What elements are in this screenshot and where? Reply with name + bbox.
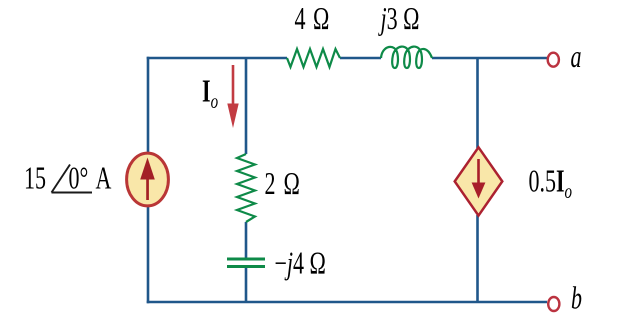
svg-text:Io: Io [202, 74, 218, 113]
wire middle branch lower [245, 267, 248, 302]
wire right branch upper [476, 58, 479, 148]
svg-text:2 Ω: 2 Ω [265, 166, 300, 201]
svg-text:0°: 0° [69, 161, 89, 196]
label a [571, 39, 582, 74]
label b [571, 281, 582, 316]
terminal a [548, 53, 559, 67]
label 0.5Io [529, 164, 573, 203]
svg-text:4 Ω: 4 Ω [295, 1, 330, 36]
capacitor -j4ohm [227, 259, 265, 267]
label 2 ohm [265, 166, 300, 201]
label -j4 ohm [275, 246, 326, 281]
wire inductor-to-terminal-a [432, 57, 547, 60]
current source arrow up [140, 158, 155, 201]
inductor j3ohm [381, 47, 432, 68]
dependent source diamond 0.5Io [455, 147, 503, 215]
svg-text:b: b [571, 281, 582, 316]
wire middle branch upper [245, 58, 248, 154]
Io arrow down [227, 65, 238, 128]
current source 15A circle [127, 153, 169, 206]
svg-text:j3 Ω: j3 Ω [378, 1, 419, 36]
label 15 angle 0 A [24, 161, 112, 196]
resistor 4ohm [287, 49, 340, 67]
svg-text:−j4 Ω: −j4 Ω [275, 246, 326, 281]
wire resistor-to-inductor [340, 57, 381, 60]
svg-text:a: a [571, 39, 582, 74]
wire top-left segment [147, 57, 287, 60]
svg-text:15: 15 [24, 161, 46, 196]
svg-text:A: A [96, 161, 112, 196]
terminal b [548, 297, 559, 311]
svg-text:0.5Io: 0.5Io [529, 164, 573, 203]
wire left vertical [147, 57, 150, 304]
label 4 ohm [295, 1, 330, 36]
wire middle branch between resistor and capacitor [245, 222, 248, 258]
wire bottom [147, 301, 547, 304]
wire right branch lower [476, 215, 479, 302]
dependent source arrow down [472, 159, 486, 199]
label j3 ohm [378, 1, 419, 36]
resistor 2ohm vertical [237, 154, 255, 222]
label Io with arrow [202, 74, 218, 113]
